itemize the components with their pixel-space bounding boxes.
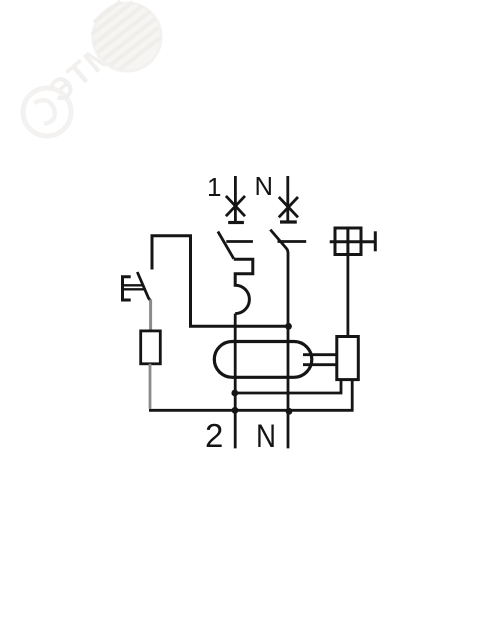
upper bus wire — [235, 380, 341, 393]
relay top wire — [346, 255, 349, 337]
junction node pole1 lower — [232, 407, 239, 414]
terminal N bar — [280, 220, 297, 223]
junction node N lower — [286, 408, 293, 415]
terminal 1 lead — [234, 176, 237, 223]
terminal 1 cross — [226, 196, 245, 216]
test button rod — [123, 285, 147, 289]
svg-text:N: N — [255, 171, 274, 201]
terminal N lead — [286, 176, 289, 223]
trip relay — [337, 337, 359, 380]
differential transformer toroid — [214, 342, 311, 378]
pole N contact blade — [270, 230, 288, 255]
pole 1 contact tick — [226, 240, 253, 243]
svg-text:N: N — [256, 418, 276, 454]
resistor lower gray wire — [149, 364, 152, 409]
pole 1 conductor wire — [234, 314, 237, 449]
lower bus wire — [149, 380, 352, 411]
test button blade — [137, 272, 150, 301]
test winding square — [330, 228, 376, 255]
toroid neck — [303, 355, 337, 365]
pole N contact tick — [278, 240, 307, 243]
pole 1 overcurrent release — [234, 259, 253, 313]
pole N conductor wire — [287, 255, 290, 448]
test loop top wire — [152, 236, 289, 326]
terminal N cross — [279, 197, 298, 217]
svg-text:2: 2 — [205, 417, 223, 454]
test button bracket — [123, 277, 131, 300]
test resistor — [141, 331, 161, 364]
watermark ЭТМ logo — [23, 0, 167, 136]
junction node N top — [285, 323, 292, 330]
svg-text:1: 1 — [207, 172, 221, 202]
terminal 1 bar — [228, 221, 244, 224]
mechanical link gray — [149, 300, 152, 332]
pole 1 contact blade — [218, 232, 234, 259]
junction node pole1 upper — [231, 390, 238, 397]
